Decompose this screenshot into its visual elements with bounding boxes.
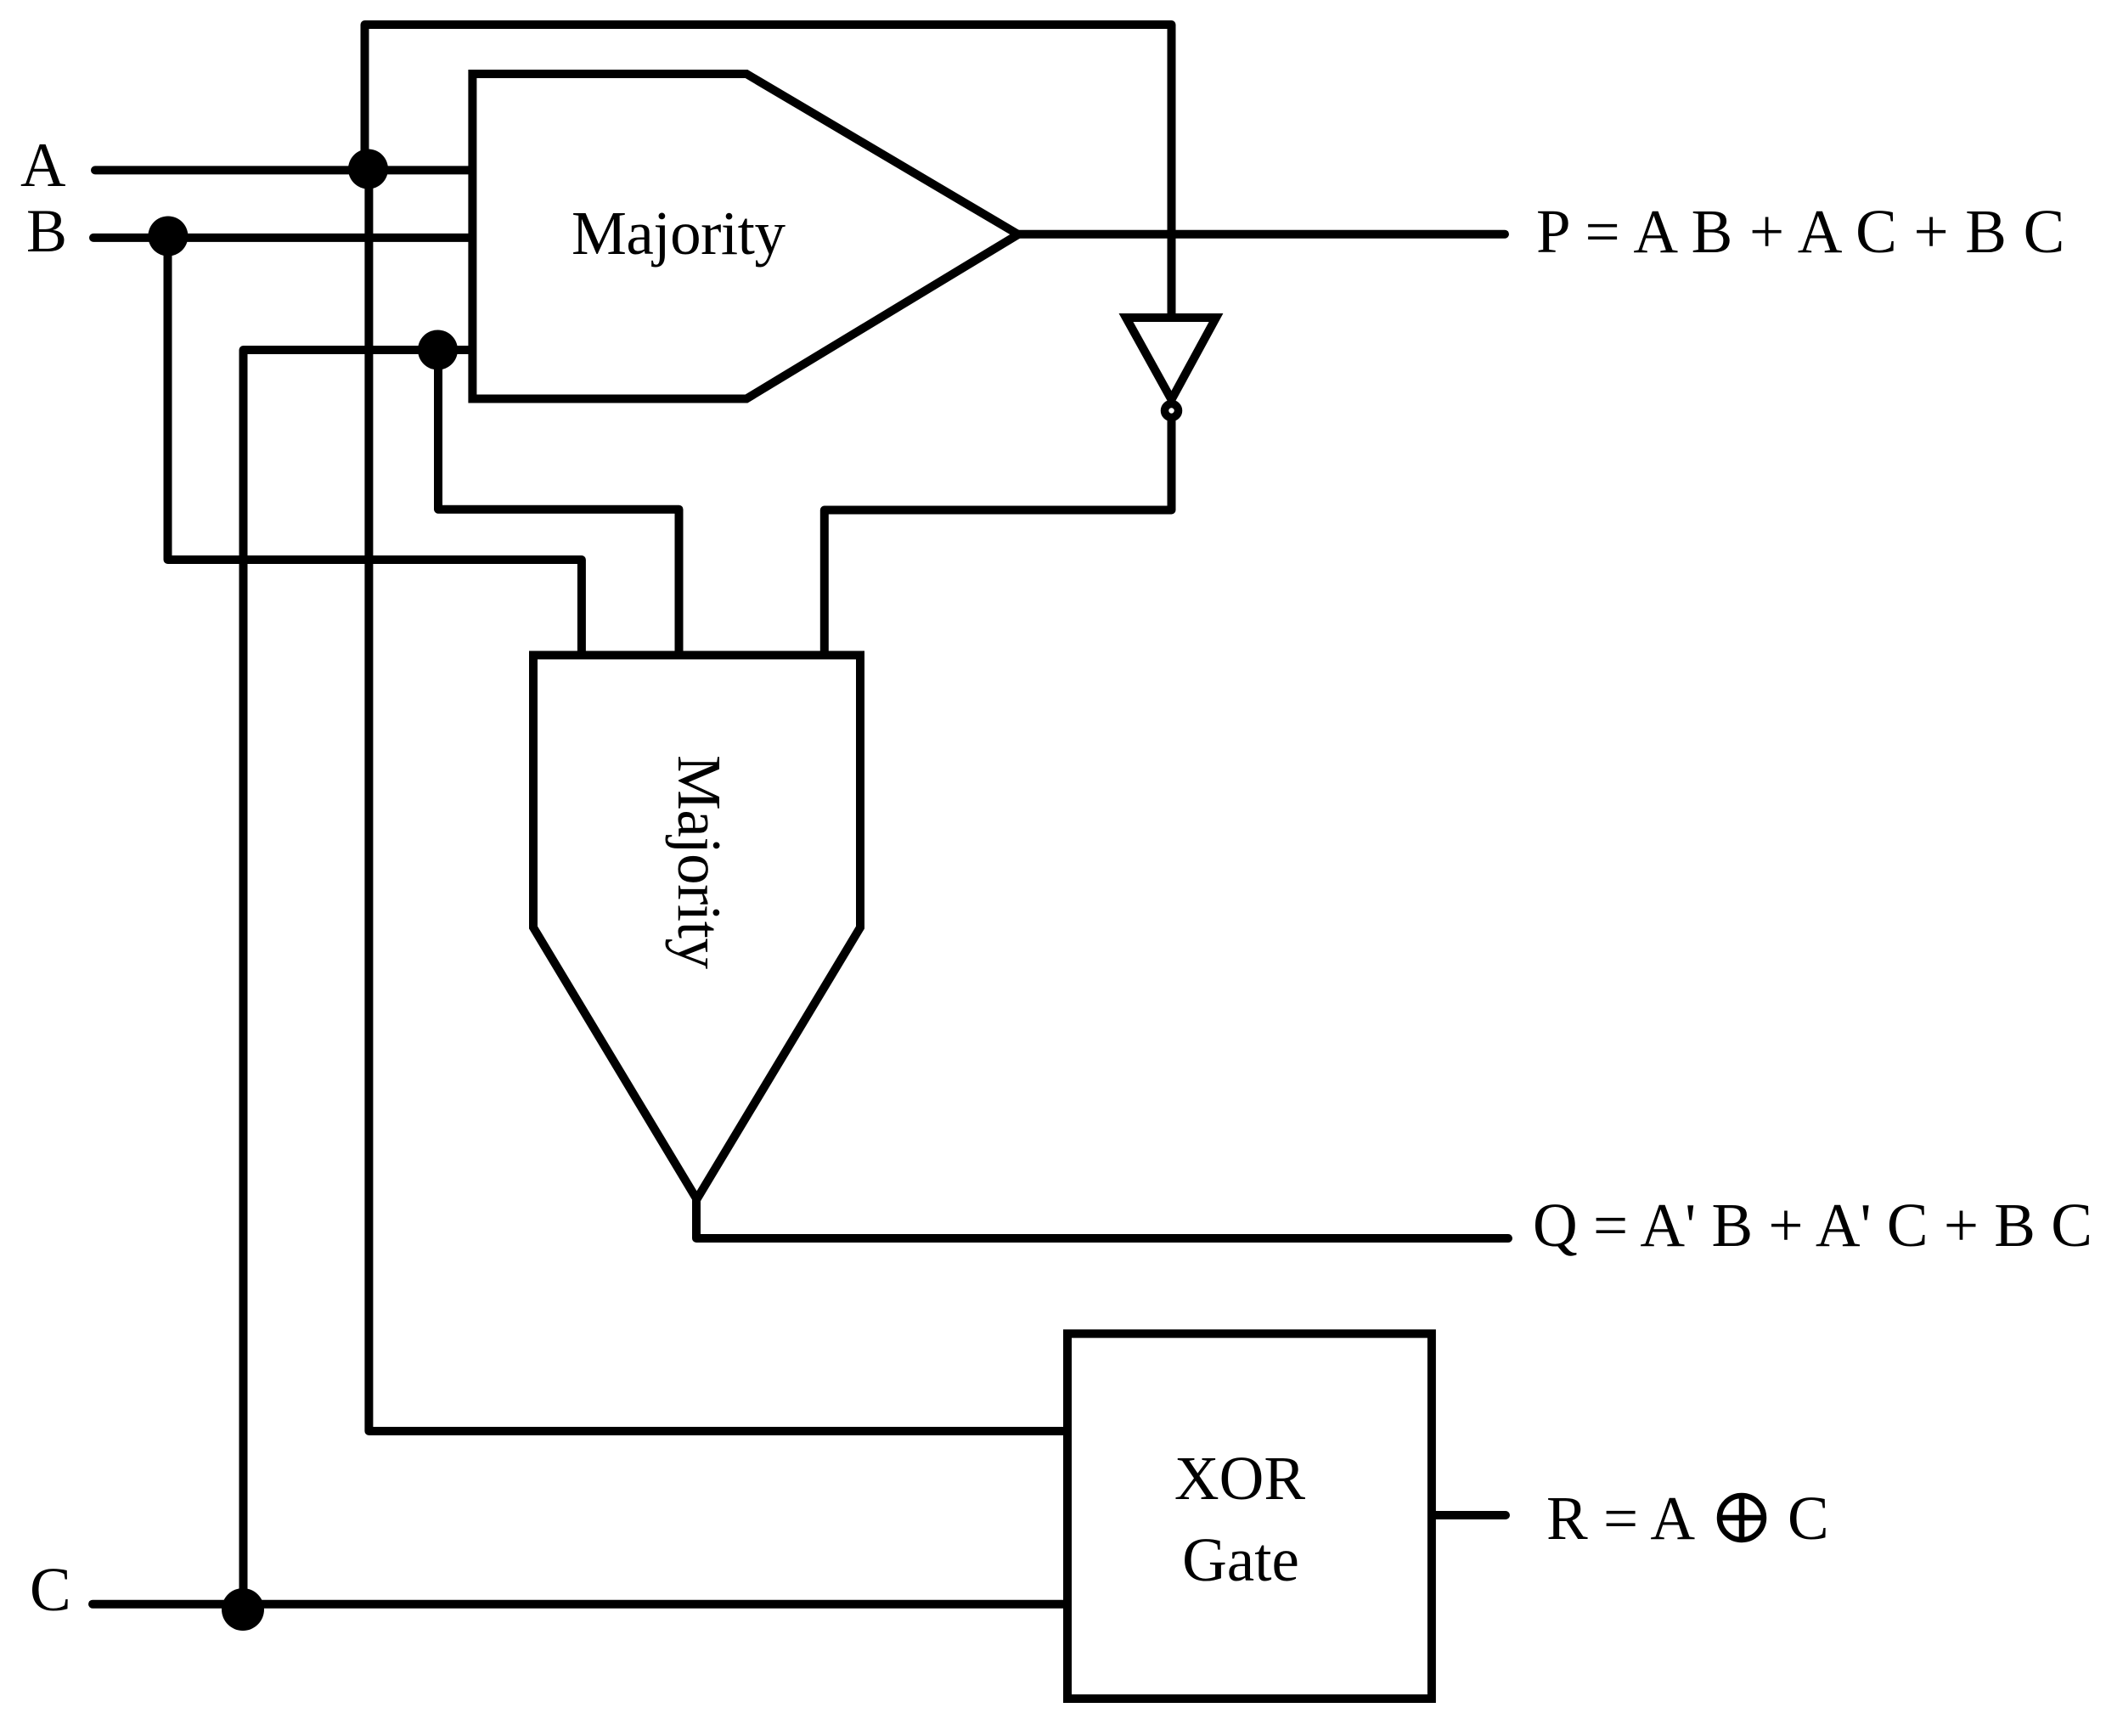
- wire: input C to XOR gate input 2: [93, 1600, 1067, 1609]
- XOR gate U4 box: [1067, 1333, 1432, 1699]
- wire: C branch up and over to majority gate 1 input 3: [244, 350, 473, 1604]
- svg-text:R = A: R = A: [1546, 1484, 1695, 1553]
- svg-text:C: C: [1788, 1484, 1829, 1553]
- wire: input A to majority gate 1: [95, 166, 472, 174]
- wire: output Q from gate 2 apex: [696, 1199, 1508, 1238]
- svg-text:A: A: [20, 131, 65, 200]
- symbol: XOR plus-circle: [1717, 1493, 1766, 1542]
- svg-text:P = A B + A C + B C: P = A B + A C + B C: [1536, 197, 2064, 266]
- node: C junction dot: [222, 1588, 264, 1631]
- inverter U2 triangle: [1126, 318, 1216, 400]
- majority gate U3 (vertical pentagon): [533, 655, 860, 1199]
- wire: output P: [1018, 230, 1505, 239]
- svg-text:Gate: Gate: [1182, 1525, 1299, 1594]
- svg-text:Majority: Majority: [665, 755, 734, 969]
- wire: output R stub: [1432, 1511, 1506, 1519]
- svg-text:Q = A' B + A' C + B C: Q = A' B + A' C + B C: [1533, 1191, 2092, 1260]
- wire: inverter output A' down and over into majority gate 2: [825, 416, 1172, 655]
- wire: A feedover top (A junction up, across, down to inverter input): [365, 25, 1172, 318]
- majority gate U1 (horizontal pentagon): [472, 74, 1018, 399]
- wire: C drop down into majority gate 2: [438, 350, 679, 655]
- node: B junction dot: [148, 217, 188, 256]
- wire: input B to majority gate 1: [93, 234, 472, 242]
- wire: A branch down to XOR gate input 1: [369, 169, 1067, 1431]
- svg-text:B: B: [26, 197, 67, 265]
- wire: B branch down and over into majority gate 2: [168, 236, 582, 655]
- node: C junction dot at gate 1 input: [418, 330, 458, 370]
- node: A junction dot: [348, 149, 388, 189]
- svg-text:Majority: Majority: [572, 199, 786, 268]
- svg-text:C: C: [30, 1555, 71, 1624]
- svg-text:XOR: XOR: [1174, 1444, 1305, 1513]
- inverter U2 bubble: [1165, 404, 1179, 418]
